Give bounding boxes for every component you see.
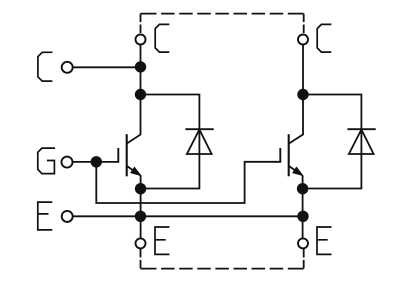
IGBT Q2 gate bar <box>279 148 281 163</box>
wire right column collector (pin C2 down to IGBT) <box>289 45 303 144</box>
label E pin bottom-left <box>155 227 170 254</box>
module outline right-bottom stub (dashed) <box>303 249 305 269</box>
terminal pin circle C2 (top right) <box>298 35 308 45</box>
wire E bus <box>73 215 303 217</box>
terminal pin circle E2 (bottom right) <box>298 238 308 248</box>
diode D2 cathode bar <box>347 128 375 130</box>
terminal pin circle E1 (bottom left) <box>136 238 146 248</box>
external terminal circle G <box>62 157 73 168</box>
label C pin top-right <box>317 24 331 52</box>
wire C terminal to left column <box>73 66 141 68</box>
IGBT Q1 emitter diagonal <box>127 166 141 176</box>
wire left column collector (pin C1 down to IGBT) <box>127 45 141 144</box>
junction dot D2 anode top <box>297 89 308 100</box>
module outline left-top stub (dashed) <box>140 14 142 34</box>
module outline right-top stub (dashed) <box>303 14 305 34</box>
junction dot E bus left <box>135 211 146 222</box>
wire G terminal to gate of Q1 <box>73 161 119 163</box>
IGBT Q2 emitter arrow <box>293 167 303 175</box>
junction dot G <box>91 156 102 167</box>
module outline bottom edge (dashed) <box>141 268 304 270</box>
junction dot D1 anode top <box>135 89 146 100</box>
wire diode D1 top branch <box>141 95 200 189</box>
wire gate cross-connect to Q2 <box>96 162 280 203</box>
junction dot Q1 emitter <box>135 183 146 194</box>
junction dot E bus right <box>297 211 308 222</box>
external terminal circle E <box>62 211 73 222</box>
wire diode D2 top branch <box>303 95 361 189</box>
label E pin bottom-right <box>317 227 332 254</box>
diode D1 cathode bar <box>185 128 213 130</box>
diode D2 triangle <box>349 130 374 155</box>
junction dot C external <box>135 61 146 72</box>
wire right emitter column <box>302 176 304 239</box>
IGBT Q2 body bar <box>288 134 290 176</box>
diode D1 triangle <box>187 130 212 155</box>
IGBT Q1 emitter arrow <box>131 167 141 175</box>
junction dot Q2 emitter <box>297 183 308 194</box>
label G (external gate) <box>38 148 55 174</box>
external terminal circle C <box>62 62 73 73</box>
label C (external collector) <box>38 52 53 81</box>
module outline left-bottom stub (dashed) <box>140 249 142 269</box>
label C pin top-left <box>155 24 169 52</box>
IGBT Q2 emitter diagonal <box>289 166 303 176</box>
wire left emitter column <box>140 176 142 239</box>
label E (external emitter) <box>38 202 53 230</box>
IGBT Q1 body bar <box>126 134 128 176</box>
module outline top edge (dashed) <box>141 13 304 15</box>
IGBT Q1 gate bar <box>117 148 119 163</box>
terminal pin circle C1 (top left) <box>136 35 146 45</box>
